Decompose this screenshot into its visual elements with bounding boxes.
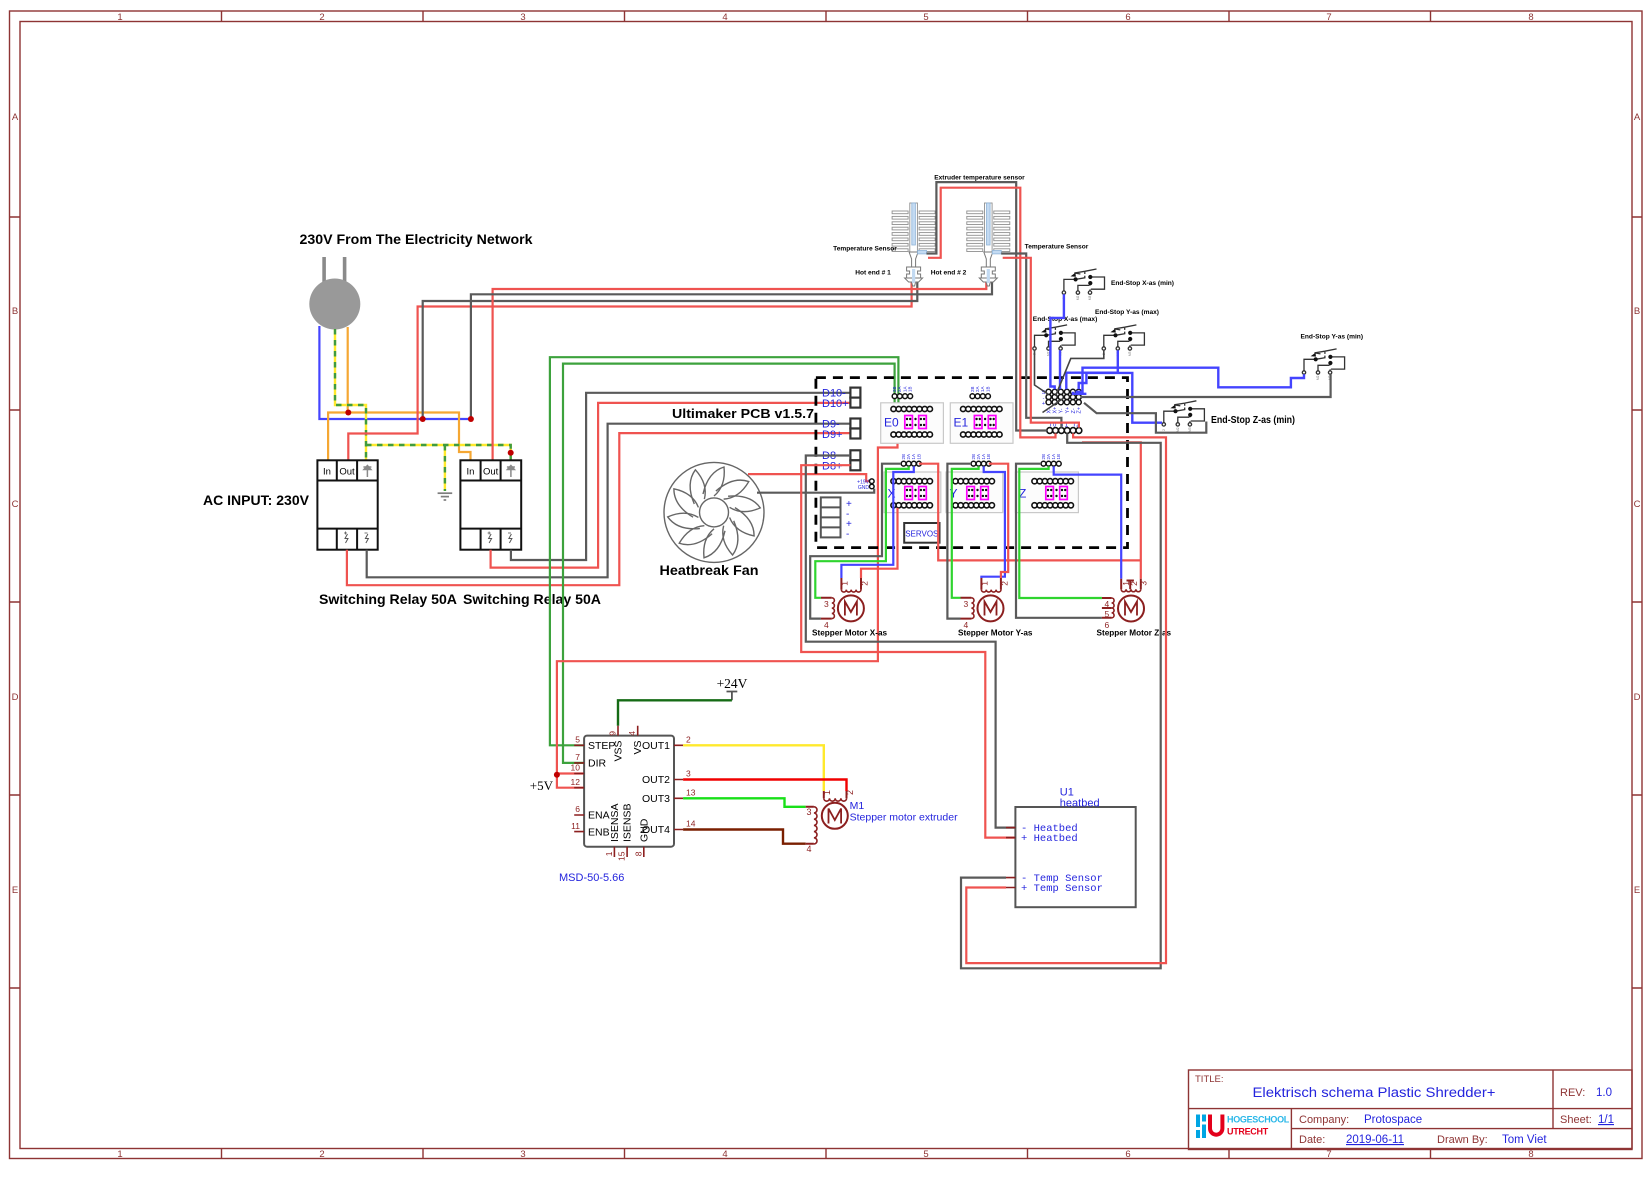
svg-text:GND: GND: [638, 818, 650, 842]
coil pins 1-2 (top): [824, 791, 847, 798]
wire: grid to Z-min gray: [1084, 403, 1206, 433]
svg-text:Sheet:: Sheet:: [1560, 1114, 1592, 1126]
svg-text:Drawn By:: Drawn By:: [1437, 1134, 1488, 1146]
row letters: [12, 112, 1641, 896]
svg-text:M1: M1: [850, 800, 865, 812]
Y connector block: [946, 472, 1003, 513]
svg-text:Hot end # 1: Hot end # 1: [855, 270, 891, 277]
svg-text:Tom Viet: Tom Viet: [1502, 1134, 1547, 1146]
svg-text:Ultimaker PCB v1.5.7: Ultimaker PCB v1.5.7: [672, 406, 814, 421]
hot end #2: [967, 203, 1010, 286]
svg-text:ENB: ENB: [588, 826, 610, 838]
svg-text:Switching Relay 50A: Switching Relay 50A: [319, 592, 457, 607]
wire: heatbed temp sensor red: [966, 433, 1166, 963]
ground symbol: [438, 493, 453, 500]
svg-text:AC INPUT: 230V: AC INPUT: 230V: [203, 493, 309, 508]
svg-text:4: 4: [807, 844, 812, 854]
svg-text:C: C: [1634, 499, 1641, 510]
wire: plug neutral (blue): [319, 326, 473, 419]
wire: X header green to motor pin3: [815, 466, 908, 598]
wire: Z red to motor pin3: [1082, 442, 1141, 579]
svg-text:D8+: D8+: [822, 461, 843, 473]
svg-text:3: 3: [807, 807, 812, 817]
svg-text:E: E: [1634, 885, 1640, 896]
relay2 arrow glyph: [507, 466, 515, 478]
svg-text:Hot end # 2: Hot end # 2: [931, 270, 967, 277]
svg-text:REV:: REV:: [1560, 1087, 1585, 1099]
wire: relay1 coil gray to D9-: [367, 424, 851, 578]
wire: X bottom-row red to motor pin2: [861, 508, 898, 578]
wire: hot end 1 heater red (relay1 Out): [348, 282, 911, 460]
Z connector block: [1015, 472, 1078, 513]
relay1 arrow glyph: [363, 466, 371, 478]
heatbreak fan: [664, 462, 764, 562]
svg-text:SERVOS: SERVOS: [905, 530, 938, 539]
svg-text:-: -: [846, 529, 849, 540]
Z header pins: [1041, 454, 1061, 466]
wire: D8+ red to heatbed plus: [801, 465, 1015, 837]
svg-text:ENA: ENA: [588, 810, 610, 822]
svg-text:6: 6: [1125, 12, 1130, 23]
svg-text:2: 2: [999, 581, 1009, 586]
wire: earth (yellow/green dashed): [335, 329, 511, 491]
svg-text:2: 2: [859, 581, 869, 586]
svg-text:Y-: Y-: [1059, 408, 1065, 413]
svg-text:5: 5: [923, 12, 928, 23]
wire: hotend1 thermistor red to T0: [928, 188, 1056, 438]
svg-text:OUT1: OUT1: [642, 740, 670, 752]
pin names: [588, 740, 670, 842]
end-stop Z-as (min) switch: [1162, 401, 1205, 432]
E1 header pins: [970, 386, 991, 398]
svg-text:End-Stop Y-as (max): End-Stop Y-as (max): [1095, 309, 1159, 316]
svg-text:UTRECHT: UTRECHT: [1227, 1127, 1269, 1137]
svg-text:5: 5: [575, 735, 580, 745]
wire: fan GND gray: [757, 489, 874, 493]
T0 T1 T2 pins: [1047, 422, 1082, 434]
svg-text:VS: VS: [632, 741, 644, 755]
svg-text:+ Temp Sensor: + Temp Sensor: [1021, 883, 1103, 895]
title block: [1189, 1070, 1633, 1150]
end-stop Y-as (min) switch: [1302, 349, 1345, 380]
wire: X header blue to motor pin1: [841, 466, 913, 578]
svg-text:ISENSA: ISENSA: [609, 803, 621, 842]
wire: relay2 coil gray to D10-: [511, 393, 851, 560]
U1 heatbed: [1006, 787, 1136, 908]
wire: Y-min endstop blue: [1076, 368, 1305, 392]
svg-text:1B: 1B: [985, 386, 990, 392]
relay1 footer glyphs: [344, 532, 368, 544]
wire: hotend2 thermistor red to T2: [1003, 258, 1079, 428]
junction dots (mains): [345, 410, 513, 456]
svg-text:7: 7: [1326, 12, 1331, 23]
svg-text:End-Stop Z-as (min): End-Stop Z-as (min): [1211, 414, 1295, 426]
coil pins 3-4 (left): [806, 807, 814, 844]
svg-text:2019-06-11: 2019-06-11: [1346, 1134, 1404, 1146]
main labels: [203, 232, 759, 607]
svg-text:7: 7: [575, 752, 580, 762]
svg-text:GND: GND: [858, 485, 870, 491]
wire: +24V dark green to VSS: [618, 700, 732, 725]
wire: Z-min endstop blue: [1079, 373, 1162, 423]
svg-text:Temperature Sensor: Temperature Sensor: [1025, 244, 1089, 251]
M letter: [829, 809, 842, 824]
wire: OUT1 yellow: [683, 745, 824, 791]
svg-text:X+: X+: [1053, 407, 1059, 414]
end-stop Y-as (max) switch: [1102, 325, 1145, 356]
svg-text:Stepper motor extruder: Stepper motor extruder: [850, 812, 958, 824]
svg-text:230V From The Electricity Netw: 230V From The Electricity Network: [300, 232, 534, 247]
svg-text:12: 12: [571, 777, 581, 787]
wire: Y header green to motor pin3: [952, 466, 979, 598]
svg-text:8: 8: [633, 851, 643, 856]
svg-text:Temperature Sensor: Temperature Sensor: [833, 246, 897, 253]
HU Hogeschool Utrecht logo: [1196, 1115, 1290, 1139]
svg-text:3: 3: [1139, 581, 1149, 586]
SERVOS box: [904, 523, 939, 543]
svg-text:1: 1: [980, 581, 990, 586]
svg-text:1: 1: [840, 581, 850, 586]
wire: X-max endstop blue: [1059, 350, 1061, 389]
svg-text:TITLE:: TITLE:: [1195, 1074, 1224, 1085]
connector D9: [822, 419, 860, 442]
motor M stepper Y-as: [961, 578, 1004, 621]
wire: OUT4 brown: [683, 830, 806, 844]
svg-text:heatbed: heatbed: [1060, 798, 1100, 810]
svg-text:D9+: D9+: [822, 429, 843, 441]
wire: fan +19V red: [748, 474, 870, 481]
svg-text:1B: 1B: [986, 454, 991, 460]
svg-text:9: 9: [608, 731, 618, 736]
wire: hot end 2 heater gray: [471, 282, 992, 419]
svg-text:HOGESCHOOL: HOGESCHOOL: [1227, 1115, 1290, 1125]
E0 connector block: [881, 403, 944, 444]
junction dot +5V: [554, 772, 560, 778]
svg-text:B: B: [1634, 306, 1640, 317]
svg-text:10: 10: [571, 763, 581, 773]
wire: Y header gray to motor pin4: [947, 464, 971, 619]
svg-text:15: 15: [617, 851, 627, 861]
svg-text:6: 6: [1125, 1149, 1130, 1160]
svg-text:Out: Out: [483, 467, 499, 478]
svg-text:4: 4: [722, 12, 727, 23]
wire: hot end 2 heater red (relay2 Out): [493, 282, 987, 460]
svg-text:A: A: [12, 112, 19, 123]
end-stop X-as (max) switch: [1033, 325, 1076, 356]
motor M stepper X-as: [821, 578, 864, 621]
wire: hot end 1 heater gray: [423, 282, 918, 419]
svg-text:4: 4: [627, 731, 637, 736]
IC U2 MSD-50-5.66 stepper driver: [559, 726, 696, 884]
Y header pins: [971, 454, 991, 466]
svg-text:ISENSB: ISENSB: [622, 803, 634, 842]
+24V power symbol: [717, 676, 748, 700]
svg-text:1B: 1B: [916, 454, 921, 460]
svg-text:E: E: [12, 885, 18, 896]
svg-text:1: 1: [822, 790, 832, 795]
svg-text:Stepper Motor X-as: Stepper Motor X-as: [812, 629, 888, 638]
svg-text:STEP: STEP: [588, 740, 615, 752]
wire: Z header gray to motor pin6: [1016, 464, 1102, 618]
wire: STEP green from E0: [550, 357, 899, 745]
svg-text:1: 1: [604, 851, 614, 856]
svg-text:In: In: [467, 467, 475, 478]
wire: grid to T-row diagonal: [1043, 399, 1064, 413]
wire: Y-max endstop blue: [1066, 350, 1118, 389]
wire: endstop blue box under grid: [1073, 392, 1087, 394]
svg-text:5: 5: [1105, 609, 1110, 619]
connector D10: [822, 388, 860, 411]
svg-text:+5V: +5V: [530, 778, 554, 793]
svg-text:7: 7: [1326, 1149, 1331, 1160]
svg-text:D10+: D10+: [822, 398, 849, 410]
svg-text:C: C: [12, 499, 19, 510]
wire: DIR green from E0: [563, 364, 895, 763]
svg-text:14: 14: [686, 819, 696, 829]
X header pins: [901, 454, 921, 466]
svg-text:+24V: +24V: [717, 676, 748, 691]
wire: +5V net red: [557, 437, 898, 788]
relay K2 Switching Relay 50A: [460, 460, 521, 549]
svg-text:D: D: [12, 692, 19, 703]
S/-/+ endstop grid connector: [1042, 389, 1083, 413]
wire: Y-max common gray diagonal: [1056, 350, 1104, 396]
svg-text:Switching Relay 50A: Switching Relay 50A: [463, 592, 601, 607]
svg-text:Date:: Date:: [1299, 1134, 1325, 1146]
relay K1 Switching Relay 50A: [317, 460, 377, 549]
svg-text:1/1: 1/1: [1598, 1114, 1614, 1126]
svg-text:2: 2: [319, 1149, 324, 1160]
svg-text:Z+: Z+: [1077, 407, 1083, 414]
X connector block: [884, 472, 941, 513]
pin stubs: [574, 726, 683, 857]
motor M1 stepper motor extruder: [806, 791, 848, 844]
svg-text:End-Stop X-as (min): End-Stop X-as (min): [1111, 280, 1174, 287]
E1 connector block: [950, 403, 1013, 444]
4-cell power connector: [821, 497, 852, 540]
svg-text:1: 1: [117, 12, 122, 23]
svg-text:B: B: [12, 306, 18, 317]
wire: X header red long run to Z: [919, 464, 1141, 561]
svg-text:E1: E1: [954, 416, 969, 430]
svg-text:Extruder temperature sensor: Extruder temperature sensor: [934, 175, 1025, 182]
svg-text:3: 3: [824, 599, 829, 609]
svg-text:+ Heatbed: + Heatbed: [1021, 833, 1078, 845]
svg-text:3: 3: [964, 599, 969, 609]
wire: OUT2 red: [683, 780, 846, 792]
wire: Z header green to motor pin4: [1019, 466, 1102, 598]
svg-text:4: 4: [1105, 599, 1110, 609]
svg-text:3: 3: [520, 1149, 525, 1160]
svg-text:2: 2: [319, 12, 324, 23]
wire: relay2 coil red to D10+: [491, 403, 851, 568]
svg-text:1B: 1B: [908, 386, 913, 392]
svg-text:8: 8: [1528, 1149, 1533, 1160]
motor M stepper Z-as: [1102, 579, 1144, 622]
end-stop X-as (min) switch: [1062, 269, 1105, 300]
+19V / GND pins: [857, 479, 874, 491]
wire: hotend1 thermistor gray to T0: [927, 182, 1047, 430]
svg-text:Out: Out: [339, 467, 355, 478]
wire: X-min endstop blue: [1050, 294, 1064, 389]
svg-text:3: 3: [520, 12, 525, 23]
wire: relay1 coil red to D9+: [347, 433, 851, 585]
svg-text:OUT3: OUT3: [642, 793, 670, 805]
svg-text:8: 8: [1528, 12, 1533, 23]
svg-text:Company:: Company:: [1299, 1114, 1349, 1126]
hot end labels: [833, 175, 1089, 277]
wire: X-max common gray: [1035, 350, 1049, 394]
svg-text:D: D: [1634, 692, 1641, 703]
svg-text:MSD-50-5.66: MSD-50-5.66: [559, 872, 624, 884]
svg-text:2: 2: [686, 735, 691, 745]
Ultimaker PCB dashed outline: [816, 378, 1128, 548]
svg-text:13: 13: [686, 788, 696, 798]
wire: grid to Y-min NC gray: [1081, 374, 1331, 397]
svg-text:E0: E0: [884, 416, 899, 430]
svg-text:Protospace: Protospace: [1364, 1114, 1422, 1126]
svg-text:1B: 1B: [1056, 454, 1061, 460]
hot end #1: [892, 203, 935, 286]
wire: hotend2 thermistor gray to T1: [1001, 254, 1061, 428]
svg-text:A: A: [1634, 112, 1641, 123]
wire: OUT3 bright green: [683, 798, 806, 807]
svg-text:+: +: [1042, 401, 1045, 407]
connector D8: [822, 450, 860, 473]
svg-text:Stepper Motor Y-as: Stepper Motor Y-as: [958, 629, 1033, 638]
svg-text:Elektrisch schema Plastic Shre: Elektrisch schema Plastic Shredder+: [1253, 1085, 1496, 1100]
wire: heatbed temp sensor gray: [961, 433, 1161, 968]
wire: Z header blue to motor pin1: [1054, 466, 1122, 579]
svg-text:1: 1: [117, 1149, 122, 1160]
wire: Y header blue to motor pin1: [981, 466, 1005, 578]
mains plug P1: [309, 257, 360, 330]
svg-text:11: 11: [571, 821, 580, 831]
svg-text:In: In: [323, 467, 331, 478]
svg-text:VSS: VSS: [613, 741, 625, 762]
svg-text:2: 2: [845, 790, 855, 795]
wire: plug live (orange) to relay inputs: [328, 327, 348, 460]
svg-text:6: 6: [575, 804, 580, 814]
svg-text:DIR: DIR: [588, 758, 607, 770]
wire: Y header red to motor pin2: [989, 464, 1008, 578]
pin numbers: [571, 731, 696, 861]
svg-text:5: 5: [923, 1149, 928, 1160]
svg-text:4: 4: [722, 1149, 727, 1160]
wire: D8- gray to heatbed minus: [806, 456, 1016, 828]
svg-text:End-Stop Y-as (min): End-Stop Y-as (min): [1301, 334, 1364, 341]
svg-text:Heatbreak Fan: Heatbreak Fan: [660, 563, 759, 578]
E0 header pins: [892, 386, 913, 398]
relay2 footer glyphs: [488, 532, 512, 544]
svg-text:3: 3: [686, 769, 691, 779]
svg-text:OUT2: OUT2: [642, 774, 670, 786]
svg-text:1.0: 1.0: [1596, 1087, 1612, 1099]
wire: X header gray to motor pin4: [810, 464, 901, 619]
